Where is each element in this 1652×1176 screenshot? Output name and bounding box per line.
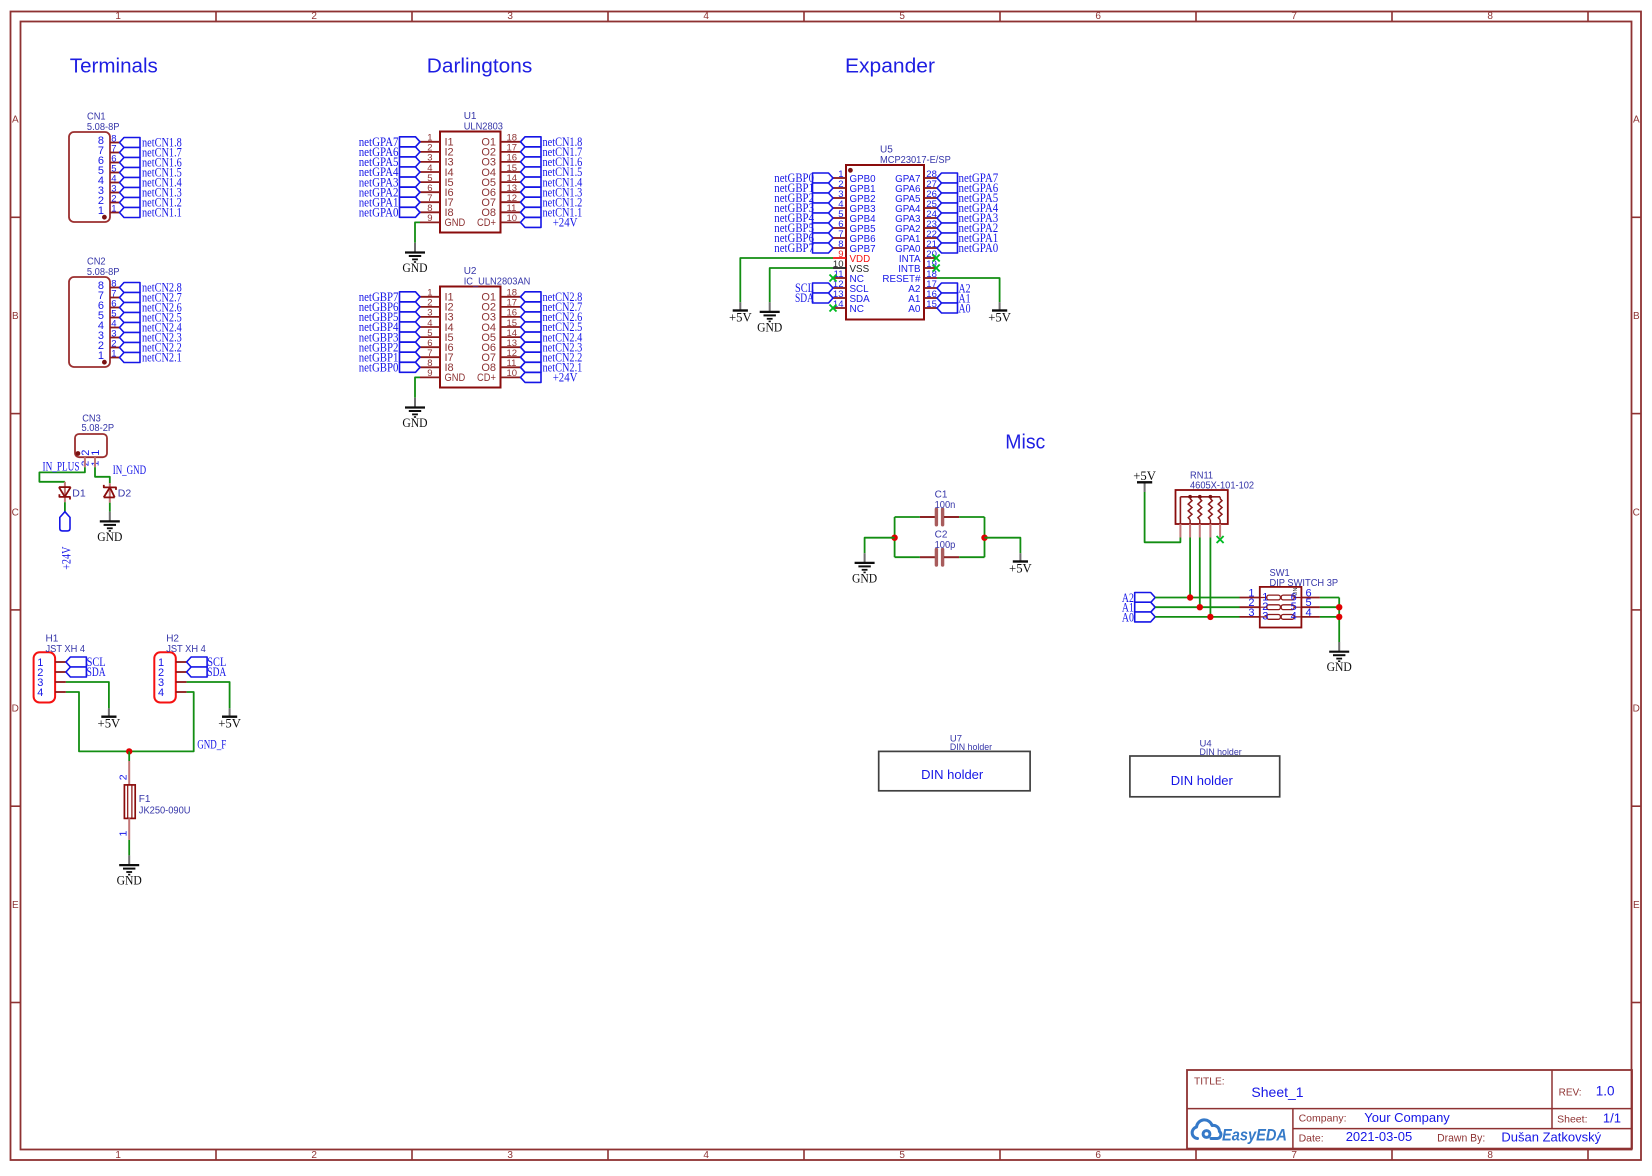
svg-text:IC_ULN2803AN: IC_ULN2803AN: [464, 277, 531, 288]
svg-text:Dušan Zatkovský: Dušan Zatkovský: [1501, 1130, 1601, 1145]
svg-text:7: 7: [1291, 11, 1297, 22]
svg-text:C1: C1: [935, 489, 948, 500]
svg-text:9: 9: [427, 213, 432, 224]
svg-text:SDA: SDA: [87, 665, 106, 679]
svg-text:1/1: 1/1: [1603, 1111, 1621, 1126]
svg-text:A: A: [12, 115, 19, 126]
svg-text:+24V: +24V: [59, 547, 73, 570]
svg-text:CD+: CD+: [477, 217, 496, 229]
svg-text:8: 8: [1487, 1150, 1493, 1161]
svg-text:GND: GND: [852, 570, 877, 585]
svg-text:NC: NC: [850, 304, 864, 315]
svg-text:GND: GND: [402, 415, 427, 430]
svg-text:ULN2803: ULN2803: [464, 122, 504, 133]
svg-text:SDA: SDA: [795, 291, 814, 305]
svg-text:D: D: [1633, 704, 1640, 715]
svg-text:Sheet:: Sheet:: [1557, 1114, 1587, 1126]
svg-text:3: 3: [1262, 611, 1268, 623]
svg-text:5.08-8P: 5.08-8P: [87, 122, 120, 133]
svg-text:1: 1: [115, 11, 121, 22]
svg-text:4: 4: [703, 11, 709, 22]
svg-text:E: E: [1633, 900, 1640, 911]
svg-text:6: 6: [1095, 11, 1101, 22]
svg-text:D1: D1: [72, 487, 86, 499]
svg-text:H2: H2: [166, 634, 179, 645]
svg-text:GND: GND: [97, 529, 122, 544]
svg-text:Expander: Expander: [845, 56, 935, 78]
svg-text:Company:: Company:: [1299, 1113, 1347, 1125]
svg-text:IN_GND: IN_GND: [113, 463, 147, 477]
svg-text:DIN holder: DIN holder: [950, 742, 992, 753]
svg-text:3: 3: [507, 11, 513, 22]
svg-text:IN_PLUS: IN_PLUS: [43, 459, 80, 473]
svg-text:U2: U2: [464, 266, 477, 277]
svg-text:1: 1: [98, 205, 104, 217]
svg-text:+5V: +5V: [729, 310, 752, 325]
svg-text:8: 8: [1487, 11, 1493, 22]
svg-text:netCN2.1: netCN2.1: [142, 351, 182, 365]
svg-text:DIN holder: DIN holder: [1171, 773, 1234, 788]
svg-text:3: 3: [507, 1150, 513, 1161]
svg-text:+5V: +5V: [218, 716, 241, 731]
svg-text:netGPA0: netGPA0: [359, 206, 399, 220]
svg-text:B: B: [1633, 311, 1640, 322]
svg-text:TITLE:: TITLE:: [1194, 1077, 1225, 1088]
svg-text:1: 1: [111, 203, 116, 214]
svg-text:GND: GND: [445, 217, 466, 229]
svg-text:JK250-090U: JK250-090U: [139, 805, 191, 816]
svg-text:A0: A0: [1122, 609, 1134, 624]
svg-text:10: 10: [507, 213, 518, 224]
svg-text:Date:: Date:: [1299, 1133, 1324, 1145]
svg-text:Your Company: Your Company: [1364, 1110, 1450, 1125]
svg-text:F1: F1: [139, 794, 151, 805]
svg-text:1: 1: [98, 350, 104, 362]
svg-text:SDA: SDA: [207, 665, 226, 679]
svg-text:netGBP7: netGBP7: [774, 241, 814, 255]
svg-text:netGBP0: netGBP0: [359, 361, 399, 375]
svg-text:Darlingtons: Darlingtons: [427, 56, 533, 78]
svg-text:GND: GND: [402, 260, 427, 275]
svg-text:ON: ON: [1293, 588, 1299, 596]
svg-text:4: 4: [1306, 607, 1312, 619]
svg-text:2021-03-05: 2021-03-05: [1346, 1129, 1413, 1144]
svg-text:3: 3: [1248, 607, 1254, 619]
svg-text:DIN holder: DIN holder: [1200, 747, 1242, 758]
svg-text:Sheet_1: Sheet_1: [1251, 1084, 1303, 1100]
svg-text:U1: U1: [464, 111, 477, 122]
svg-text:A0: A0: [959, 301, 971, 316]
svg-text:1: 1: [118, 831, 130, 837]
svg-text:+5V: +5V: [988, 310, 1011, 325]
svg-text:9: 9: [427, 368, 432, 379]
svg-text:Misc: Misc: [1005, 432, 1045, 454]
svg-text:DIP SWITCH 3P: DIP SWITCH 3P: [1270, 578, 1339, 589]
svg-text:CD+: CD+: [477, 372, 496, 384]
svg-text:JST XH 4: JST XH 4: [166, 644, 206, 655]
svg-text:B: B: [12, 311, 19, 322]
svg-text:U5: U5: [880, 145, 893, 156]
svg-text:1.0: 1.0: [1596, 1084, 1615, 1099]
svg-text:REV:: REV:: [1559, 1088, 1582, 1099]
svg-text:2: 2: [118, 774, 130, 780]
svg-text:5.08-2P: 5.08-2P: [82, 423, 115, 434]
svg-text:MCP23017-E/SP: MCP23017-E/SP: [880, 155, 951, 166]
svg-text:7: 7: [1291, 1150, 1297, 1161]
svg-text:1: 1: [115, 1150, 121, 1161]
svg-text:6: 6: [1095, 1150, 1101, 1161]
svg-text:A0: A0: [908, 304, 921, 315]
svg-text:4: 4: [37, 687, 43, 699]
svg-text:DIN holder: DIN holder: [921, 767, 984, 782]
svg-text:A: A: [1633, 115, 1640, 126]
svg-text:100n: 100n: [935, 500, 956, 511]
svg-text:GND: GND: [445, 372, 466, 384]
svg-text:100p: 100p: [935, 540, 956, 551]
svg-text:2: 2: [311, 1150, 317, 1161]
svg-text:D: D: [12, 704, 19, 715]
svg-text:1: 1: [90, 450, 102, 456]
svg-text:4: 4: [1291, 611, 1297, 623]
svg-text:10: 10: [507, 368, 518, 379]
svg-text:D2: D2: [118, 487, 132, 499]
svg-text:netCN1.1: netCN1.1: [142, 206, 182, 220]
svg-text:GND: GND: [757, 319, 782, 334]
svg-text:H1: H1: [46, 634, 59, 645]
svg-text:5: 5: [899, 1150, 905, 1161]
svg-text:+5V: +5V: [1009, 561, 1032, 576]
svg-text:C: C: [12, 507, 19, 518]
svg-text:netGPA0: netGPA0: [959, 241, 999, 255]
svg-text:5: 5: [899, 11, 905, 22]
svg-text:JST XH 4: JST XH 4: [46, 644, 86, 655]
svg-text:EasyEDA: EasyEDA: [1222, 1126, 1287, 1145]
svg-text:Drawn By:: Drawn By:: [1437, 1133, 1485, 1145]
svg-text:5.08-8P: 5.08-8P: [87, 267, 120, 278]
svg-text:GND_F: GND_F: [197, 738, 226, 752]
svg-text:+5V: +5V: [98, 716, 121, 731]
svg-text:+24V: +24V: [553, 371, 578, 385]
svg-text:15: 15: [926, 299, 937, 310]
svg-text:2: 2: [311, 11, 317, 22]
svg-text:C2: C2: [935, 530, 948, 541]
svg-text:4605X-101-102: 4605X-101-102: [1190, 481, 1255, 492]
svg-text:14: 14: [833, 299, 844, 310]
svg-text:C: C: [1633, 507, 1640, 518]
svg-text:4: 4: [158, 687, 164, 699]
svg-text:4: 4: [703, 1150, 709, 1161]
svg-text:Terminals: Terminals: [70, 56, 158, 78]
svg-text:GND: GND: [1327, 659, 1352, 674]
svg-text:+5V: +5V: [1133, 468, 1156, 483]
svg-text:1: 1: [111, 348, 116, 359]
svg-text:+24V: +24V: [553, 216, 578, 230]
svg-text:GND: GND: [117, 873, 142, 888]
svg-text:E: E: [12, 900, 19, 911]
